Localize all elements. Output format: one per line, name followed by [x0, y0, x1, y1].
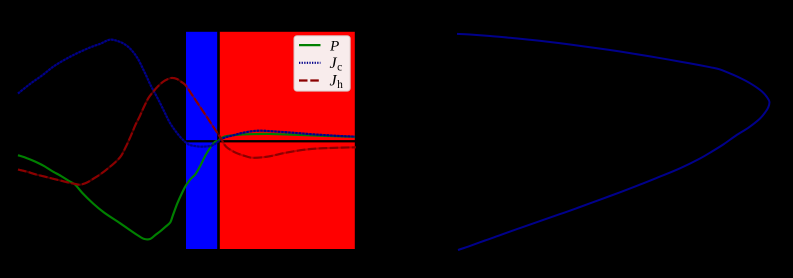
- curve P (green solid): [18, 134, 355, 240]
- legend sample Jh line: [299, 79, 321, 81]
- svg-text:P: P: [329, 38, 339, 55]
- curve Jc (dark blue dotted) underlay: [18, 40, 355, 147]
- zero axis line: [18, 140, 356, 142]
- curve Jh (dark red dashed): [18, 78, 356, 185]
- legend sample Jc line: [299, 62, 321, 64]
- legend box: [294, 36, 350, 91]
- red region band (right material): [220, 32, 355, 249]
- blue region band (left material): [186, 32, 217, 249]
- legend sample P line: [299, 44, 321, 46]
- curve Jc (dark blue dotted): [18, 40, 355, 147]
- interface divider line: [217, 32, 219, 249]
- right panel loop curve: [457, 34, 769, 250]
- curve Jh (dark red dashed) underlay: [18, 78, 356, 185]
